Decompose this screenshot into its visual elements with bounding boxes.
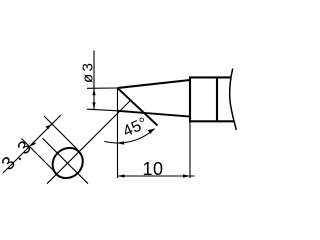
svg-text:ø3: ø3 <box>80 60 97 83</box>
svg-text:10: 10 <box>142 159 163 179</box>
